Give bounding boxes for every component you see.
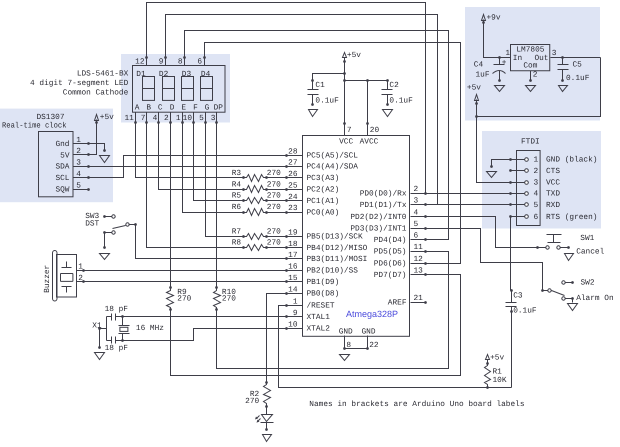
svg-text:+5v: +5v bbox=[467, 84, 481, 93]
svg-text:+: + bbox=[502, 59, 507, 67]
resistor R4 270 bbox=[244, 186, 267, 193]
svg-text:PC2(A2): PC2(A2) bbox=[307, 186, 340, 195]
svg-text:0.1uF: 0.1uF bbox=[389, 96, 413, 105]
svg-text:19: 19 bbox=[288, 229, 298, 238]
svg-text:2: 2 bbox=[164, 114, 169, 123]
resistor R8 270 bbox=[244, 245, 267, 251]
wire R3 to U1 pin 26 bbox=[267, 177, 287, 179]
connector J1 pin 4 bbox=[525, 192, 529, 196]
wire R4 to U1 pin 25 bbox=[267, 189, 287, 191]
svg-text:13: 13 bbox=[414, 266, 424, 275]
wire R9 to mcu PD7 bbox=[171, 275, 461, 376]
svg-text:C5: C5 bbox=[573, 61, 583, 70]
wire X1 ground stub bbox=[100, 328, 107, 330]
svg-text:VCC: VCC bbox=[339, 137, 353, 146]
svg-text:1: 1 bbox=[293, 298, 298, 307]
wire mcu PD3 to SW2 bbox=[426, 229, 543, 291]
wire display pin9 to U1 PD1 net bbox=[166, 15, 438, 205]
svg-text:6: 6 bbox=[197, 58, 202, 67]
mcu U1 ATmega328P box bbox=[303, 136, 410, 337]
svg-text:AREF: AREF bbox=[388, 299, 407, 308]
svg-text:GND: GND bbox=[362, 328, 376, 337]
wire SCL rtc to mcu bbox=[89, 156, 287, 178]
svg-text:PD6(D6): PD6(D6) bbox=[374, 259, 407, 268]
svg-text:+9v: +9v bbox=[487, 13, 501, 22]
svg-text:R3: R3 bbox=[232, 169, 242, 178]
svg-text:3: 3 bbox=[414, 197, 419, 206]
svg-text:9: 9 bbox=[293, 309, 298, 318]
svg-text:R6: R6 bbox=[232, 203, 242, 212]
regulator Com pin 2 bbox=[530, 71, 532, 81]
svg-text:5: 5 bbox=[534, 201, 539, 210]
svg-text:4: 4 bbox=[76, 170, 81, 179]
svg-text:DST: DST bbox=[85, 219, 99, 228]
svg-text:PB1(D9): PB1(D9) bbox=[307, 278, 340, 287]
svg-text:4: 4 bbox=[414, 208, 419, 217]
capacitor bottom 18pF bbox=[107, 340, 112, 342]
svg-text:1: 1 bbox=[176, 114, 181, 123]
wire rtc Gnd to ground bbox=[89, 144, 105, 151]
wire SDA rtc to mcu bbox=[89, 166, 287, 168]
svg-text:PC4(A4)/SDA: PC4(A4)/SDA bbox=[307, 163, 359, 172]
svg-text:D2: D2 bbox=[159, 70, 169, 79]
svg-text:6: 6 bbox=[414, 232, 419, 241]
rtc pin leads bbox=[74, 143, 89, 145]
svg-text:PD0(D0)/Rx: PD0(D0)/Rx bbox=[360, 190, 407, 199]
svg-text:0.1uF: 0.1uF bbox=[566, 74, 590, 83]
regulator U2 LM7805 box bbox=[511, 45, 550, 71]
svg-text:SW1: SW1 bbox=[580, 234, 594, 243]
svg-text:3: 3 bbox=[211, 114, 216, 123]
wire segment DP to R10 bbox=[216, 123, 218, 288]
wire segment E to R6 bbox=[183, 123, 244, 213]
highlight display region bbox=[121, 54, 230, 123]
svg-text:Names in brackets are Arduino: Names in brackets are Arduino Uno board … bbox=[309, 400, 525, 409]
resistor R9 270 bbox=[167, 288, 174, 310]
svg-text:20: 20 bbox=[370, 126, 380, 135]
svg-text:26: 26 bbox=[288, 170, 298, 179]
capacitor C4 1uF bbox=[498, 56, 501, 59]
wire R5 to U1 pin 24 bbox=[267, 200, 287, 202]
wire U2 Out to +5v node bbox=[477, 58, 601, 117]
ground C4 bbox=[495, 86, 505, 92]
power +5v rtc bbox=[95, 115, 99, 121]
svg-text:1: 1 bbox=[76, 136, 81, 145]
rtc U3 DS1307 box bbox=[39, 132, 74, 197]
capacitor C3 0.1uF bbox=[511, 291, 513, 303]
ground LED1 bbox=[263, 435, 272, 442]
svg-text:15: 15 bbox=[288, 274, 298, 283]
svg-text:SDA: SDA bbox=[55, 163, 69, 172]
svg-text:In: In bbox=[513, 54, 522, 63]
svg-text:9: 9 bbox=[159, 58, 164, 67]
wire R6 to U1 pin 23 bbox=[267, 212, 287, 214]
ground SW3 bbox=[100, 254, 110, 260]
connector J1 pin 3 bbox=[525, 181, 529, 185]
svg-text:8: 8 bbox=[346, 341, 351, 350]
svg-text:270: 270 bbox=[177, 295, 191, 304]
display digit D1 glyph bbox=[143, 77, 155, 101]
svg-text:17: 17 bbox=[288, 251, 298, 260]
buzzer pin leads bbox=[77, 270, 84, 272]
svg-text:SQW: SQW bbox=[55, 186, 69, 195]
mcu VCC pin lead bbox=[344, 124, 346, 136]
svg-text:2: 2 bbox=[414, 185, 419, 194]
svg-text:FTDI: FTDI bbox=[521, 138, 540, 147]
wire segment B to R8 bbox=[147, 123, 244, 248]
svg-text:+5v: +5v bbox=[347, 51, 361, 60]
buzzer BZ1 body bbox=[53, 251, 58, 302]
svg-text:28: 28 bbox=[288, 147, 298, 156]
svg-text:270: 270 bbox=[267, 180, 281, 189]
svg-text:4 digit 7-segment LED: 4 digit 7-segment LED bbox=[30, 79, 129, 88]
resistor R6 270 bbox=[244, 209, 267, 216]
svg-text:SW2: SW2 bbox=[581, 278, 595, 287]
svg-text:0.1uF: 0.1uF bbox=[513, 307, 537, 316]
svg-text:C3: C3 bbox=[513, 292, 523, 301]
svg-text:10K: 10K bbox=[493, 376, 507, 385]
connector J1 FTDI box bbox=[517, 151, 541, 226]
svg-text:R4: R4 bbox=[232, 180, 242, 189]
svg-text:Real-time clock: Real-time clock bbox=[2, 121, 67, 130]
svg-text:2: 2 bbox=[76, 147, 81, 156]
ground mcu GND bbox=[340, 355, 350, 361]
wire XTAL1 to crystal bbox=[123, 316, 287, 318]
wire mcu PD0 to J1 TXD bbox=[426, 193, 525, 195]
svg-text:XTAL2: XTAL2 bbox=[307, 324, 331, 333]
switch SW2 toggle bbox=[543, 290, 548, 292]
wire J1 RTS to C3 bbox=[511, 216, 525, 218]
wire segment G to R7 bbox=[206, 123, 244, 237]
svg-text:+5v: +5v bbox=[100, 113, 114, 122]
svg-text:5: 5 bbox=[199, 114, 204, 123]
svg-text:LM7805: LM7805 bbox=[516, 46, 544, 55]
svg-text:XTAL1: XTAL1 bbox=[307, 313, 331, 322]
svg-text:PC3(A3): PC3(A3) bbox=[307, 174, 340, 183]
svg-text:7: 7 bbox=[141, 114, 146, 123]
ground J1 GND bbox=[487, 172, 497, 178]
ground X1 bbox=[95, 353, 105, 360]
wire SW3 common to mcu PB3 bbox=[136, 225, 287, 259]
svg-text:RTS (green): RTS (green) bbox=[546, 213, 597, 222]
wire R10 to mcu PD5 bbox=[217, 252, 449, 369]
wire mcu /RESET to R1 C3 rail bbox=[279, 306, 512, 388]
svg-text:Atmega328P: Atmega328P bbox=[346, 309, 398, 319]
svg-text:270: 270 bbox=[267, 203, 281, 212]
led LED1 bbox=[266, 407, 268, 415]
switch SW1 pushbutton bbox=[547, 234, 562, 236]
connector J1 pin 6 bbox=[525, 215, 529, 219]
wire SW3 lower contact to ground bbox=[104, 233, 106, 248]
svg-text:PD5(D5): PD5(D5) bbox=[374, 248, 407, 257]
wire +5v branch to C1 bbox=[313, 74, 345, 81]
svg-text:Cancel: Cancel bbox=[576, 248, 604, 257]
wire J1 pin1 to ground bbox=[492, 160, 511, 167]
svg-text:1uF: 1uF bbox=[476, 71, 490, 80]
svg-text:PD7(D7): PD7(D7) bbox=[374, 271, 407, 280]
svg-text:270: 270 bbox=[245, 397, 259, 406]
svg-text:PB3(D11)/MOSI: PB3(D11)/MOSI bbox=[307, 255, 368, 264]
svg-text:6: 6 bbox=[534, 213, 539, 222]
svg-text:3: 3 bbox=[76, 159, 81, 168]
wire AVCC drop bbox=[367, 81, 369, 124]
display DISP1 LDS-5461-BX box bbox=[133, 66, 226, 113]
svg-text:18 pF: 18 pF bbox=[105, 344, 129, 353]
svg-text:4: 4 bbox=[153, 114, 158, 123]
svg-text:1: 1 bbox=[505, 49, 510, 58]
svg-text:AVCC: AVCC bbox=[360, 137, 379, 146]
wire display pin6 to U1 PD6 net bbox=[205, 43, 461, 264]
capacitor C2 0.1uF bbox=[387, 81, 389, 90]
svg-text:PB0(D8): PB0(D8) bbox=[307, 290, 340, 299]
svg-text:16: 16 bbox=[288, 263, 298, 272]
svg-text:10: 10 bbox=[183, 114, 193, 123]
svg-text:F: F bbox=[193, 104, 198, 113]
svg-text:12: 12 bbox=[135, 58, 145, 67]
power +5v R1 bbox=[486, 355, 490, 360]
svg-text:25: 25 bbox=[288, 181, 298, 190]
svg-text:4: 4 bbox=[534, 190, 539, 199]
ground C1 bbox=[309, 110, 318, 117]
wire U2 Out bbox=[551, 57, 601, 59]
svg-text:Alarm On: Alarm On bbox=[576, 294, 613, 303]
svg-text:27: 27 bbox=[288, 159, 298, 168]
svg-text:11: 11 bbox=[414, 243, 424, 252]
svg-text:LDS-5461-BX: LDS-5461-BX bbox=[77, 70, 129, 79]
connector J1 pin 2 bbox=[525, 169, 529, 173]
svg-text:PC5(A5)/SCL: PC5(A5)/SCL bbox=[307, 152, 359, 161]
wire buzzer pin2 to mcu PB1 bbox=[84, 281, 287, 283]
ground U2 Com bbox=[526, 86, 536, 92]
svg-text:DS1307: DS1307 bbox=[36, 113, 64, 122]
svg-text:2: 2 bbox=[534, 167, 539, 176]
ground C2 bbox=[383, 110, 393, 117]
capacitor C5 0.1uF bbox=[561, 56, 564, 59]
svg-text:3: 3 bbox=[552, 49, 557, 58]
wire +5v branch to C2 and AVCC bbox=[345, 80, 388, 82]
wire +5v to rtc 5V pin bbox=[89, 120, 97, 155]
svg-text:D4: D4 bbox=[201, 70, 211, 79]
svg-text:8: 8 bbox=[178, 58, 183, 67]
display digit D4 glyph bbox=[201, 77, 213, 101]
svg-text:GND (black): GND (black) bbox=[546, 156, 597, 165]
svg-text:G: G bbox=[205, 104, 210, 113]
svg-text:Com: Com bbox=[523, 62, 537, 71]
svg-text:+5v: +5v bbox=[490, 353, 504, 362]
svg-text:TXD: TXD bbox=[546, 190, 560, 199]
svg-text:21: 21 bbox=[414, 294, 424, 303]
svg-text:Buzzer: Buzzer bbox=[43, 265, 52, 293]
wire R8 to U1 pin 18 bbox=[267, 247, 287, 249]
wire mcu PB0 to R2 bbox=[267, 294, 287, 383]
svg-text:12: 12 bbox=[414, 255, 424, 264]
mcu left pin leads bbox=[287, 155, 303, 157]
svg-text:PB5(D13)/SCK: PB5(D13)/SCK bbox=[307, 233, 363, 242]
svg-text:Gnd: Gnd bbox=[55, 140, 69, 149]
svg-text:R1: R1 bbox=[493, 367, 503, 376]
svg-text:C1: C1 bbox=[315, 81, 325, 90]
svg-text:5V: 5V bbox=[60, 151, 70, 160]
wire +5v to J1 VCC bbox=[477, 100, 511, 183]
resistor R7 270 bbox=[244, 234, 267, 240]
ground SW2 bbox=[568, 304, 578, 311]
capacitor top 18pF bbox=[107, 316, 112, 318]
mcu AVCC pin lead bbox=[367, 124, 369, 136]
svg-text:270: 270 bbox=[267, 169, 281, 178]
resistor R10 270 bbox=[214, 288, 221, 310]
display digit D2 glyph bbox=[163, 77, 175, 101]
ground C5 bbox=[559, 86, 568, 92]
connector J1 pin 5 bbox=[525, 203, 529, 207]
svg-text:PD2(D2)/INT0: PD2(D2)/INT0 bbox=[350, 213, 406, 222]
svg-text:PD3(D3)/INT1: PD3(D3)/INT1 bbox=[350, 224, 406, 233]
wire mcu PD2 to SW1 bbox=[426, 217, 538, 248]
svg-text:PC0(A0): PC0(A0) bbox=[307, 208, 340, 217]
svg-text:10: 10 bbox=[288, 320, 298, 329]
svg-text:E: E bbox=[181, 104, 186, 113]
mcu GND pin leads bbox=[344, 336, 346, 349]
wire segment D to R9 bbox=[170, 123, 172, 288]
wire segment F to R5 bbox=[194, 123, 244, 201]
svg-text:D3: D3 bbox=[182, 70, 192, 79]
svg-text:PB4(D12)/MISO: PB4(D12)/MISO bbox=[307, 244, 368, 253]
power +5v mcu supply bbox=[343, 53, 347, 58]
resistor R2 270 bbox=[264, 383, 271, 407]
svg-text:GND: GND bbox=[339, 328, 353, 337]
svg-text:11: 11 bbox=[124, 114, 134, 123]
svg-text:R5: R5 bbox=[232, 192, 242, 201]
svg-text:3: 3 bbox=[534, 178, 539, 187]
power +9v input bbox=[482, 15, 486, 21]
svg-text:R7: R7 bbox=[232, 228, 242, 237]
resistor R3 270 bbox=[244, 175, 267, 182]
svg-text:PB2(D10)/SS: PB2(D10)/SS bbox=[307, 267, 359, 276]
resistor R5 270 bbox=[244, 198, 267, 204]
svg-text:VCC: VCC bbox=[546, 178, 560, 187]
wire +9v to U2 In bbox=[484, 20, 511, 58]
svg-text:Out: Out bbox=[534, 54, 548, 63]
mcu right pin leads bbox=[411, 193, 426, 195]
ground rtc bbox=[100, 156, 110, 163]
svg-text:2: 2 bbox=[533, 71, 538, 80]
svg-text:C4: C4 bbox=[474, 61, 484, 70]
wire R7 to U1 pin 19 bbox=[267, 236, 287, 238]
connector J1 pin 1 bbox=[525, 158, 529, 162]
svg-text:18 pF: 18 pF bbox=[105, 305, 129, 314]
resistor R1 10K pullup bbox=[485, 364, 491, 388]
svg-text:RXD: RXD bbox=[546, 201, 560, 210]
wire buzzer pin1 to mcu PB2 bbox=[84, 270, 287, 272]
svg-text:C: C bbox=[158, 104, 163, 113]
svg-text:23: 23 bbox=[288, 204, 298, 213]
wire segment A to R3 bbox=[136, 123, 244, 178]
svg-text:DP: DP bbox=[214, 104, 224, 113]
svg-text:270: 270 bbox=[222, 295, 236, 304]
svg-text:PC1(A1): PC1(A1) bbox=[307, 197, 340, 206]
svg-text:270: 270 bbox=[267, 239, 281, 248]
svg-text:B: B bbox=[146, 104, 151, 113]
svg-text:D: D bbox=[170, 104, 175, 113]
svg-text:PD1(D1)/Tx: PD1(D1)/Tx bbox=[360, 201, 407, 210]
wire display pin8 to U1 PD4 net bbox=[185, 31, 449, 240]
svg-text:0.1uF: 0.1uF bbox=[315, 96, 339, 105]
svg-text:C2: C2 bbox=[389, 81, 399, 90]
svg-text:7: 7 bbox=[347, 126, 352, 135]
wire +5v to VCC bbox=[344, 58, 346, 124]
wire XTAL2 to crystal bbox=[123, 329, 287, 341]
svg-text:5: 5 bbox=[76, 181, 81, 190]
wire display pin12 to U1 PD0 net bbox=[147, 3, 426, 194]
svg-text:16 MHz: 16 MHz bbox=[136, 324, 164, 333]
svg-text:PD4(D4): PD4(D4) bbox=[374, 236, 407, 245]
svg-text:24: 24 bbox=[288, 193, 298, 202]
svg-text:D1: D1 bbox=[136, 70, 146, 79]
wire segment C to R4 bbox=[159, 123, 244, 190]
svg-text:R8: R8 bbox=[232, 239, 242, 248]
display digit D3 glyph bbox=[182, 77, 194, 101]
svg-text:270: 270 bbox=[267, 192, 281, 201]
highlight FTDI region bbox=[482, 131, 601, 229]
highlight DS1307 region bbox=[0, 109, 113, 203]
svg-text:Common Cathode: Common Cathode bbox=[63, 89, 129, 98]
svg-text:/RESET: /RESET bbox=[307, 302, 335, 311]
svg-text:A: A bbox=[135, 104, 140, 113]
svg-text:18: 18 bbox=[288, 240, 298, 249]
ground SW1 bbox=[565, 254, 574, 261]
svg-text:14: 14 bbox=[288, 286, 298, 295]
svg-text:SCL: SCL bbox=[55, 174, 69, 183]
capacitor C1 0.1uF bbox=[312, 81, 314, 90]
highlight LM7805 region bbox=[465, 7, 600, 121]
display bottom pin leads bbox=[135, 113, 137, 123]
svg-text:5: 5 bbox=[414, 220, 419, 229]
svg-text:1: 1 bbox=[534, 156, 539, 165]
svg-text:CTS: CTS bbox=[546, 167, 560, 176]
crystal X1 16 MHz bbox=[122, 317, 124, 326]
wire mcu PD1 to J1 RXD bbox=[426, 204, 525, 206]
wire SW2 lower contact to ground bbox=[572, 299, 574, 303]
svg-text:22: 22 bbox=[369, 341, 379, 350]
svg-text:270: 270 bbox=[267, 228, 281, 237]
wire cap bus bbox=[106, 317, 108, 341]
